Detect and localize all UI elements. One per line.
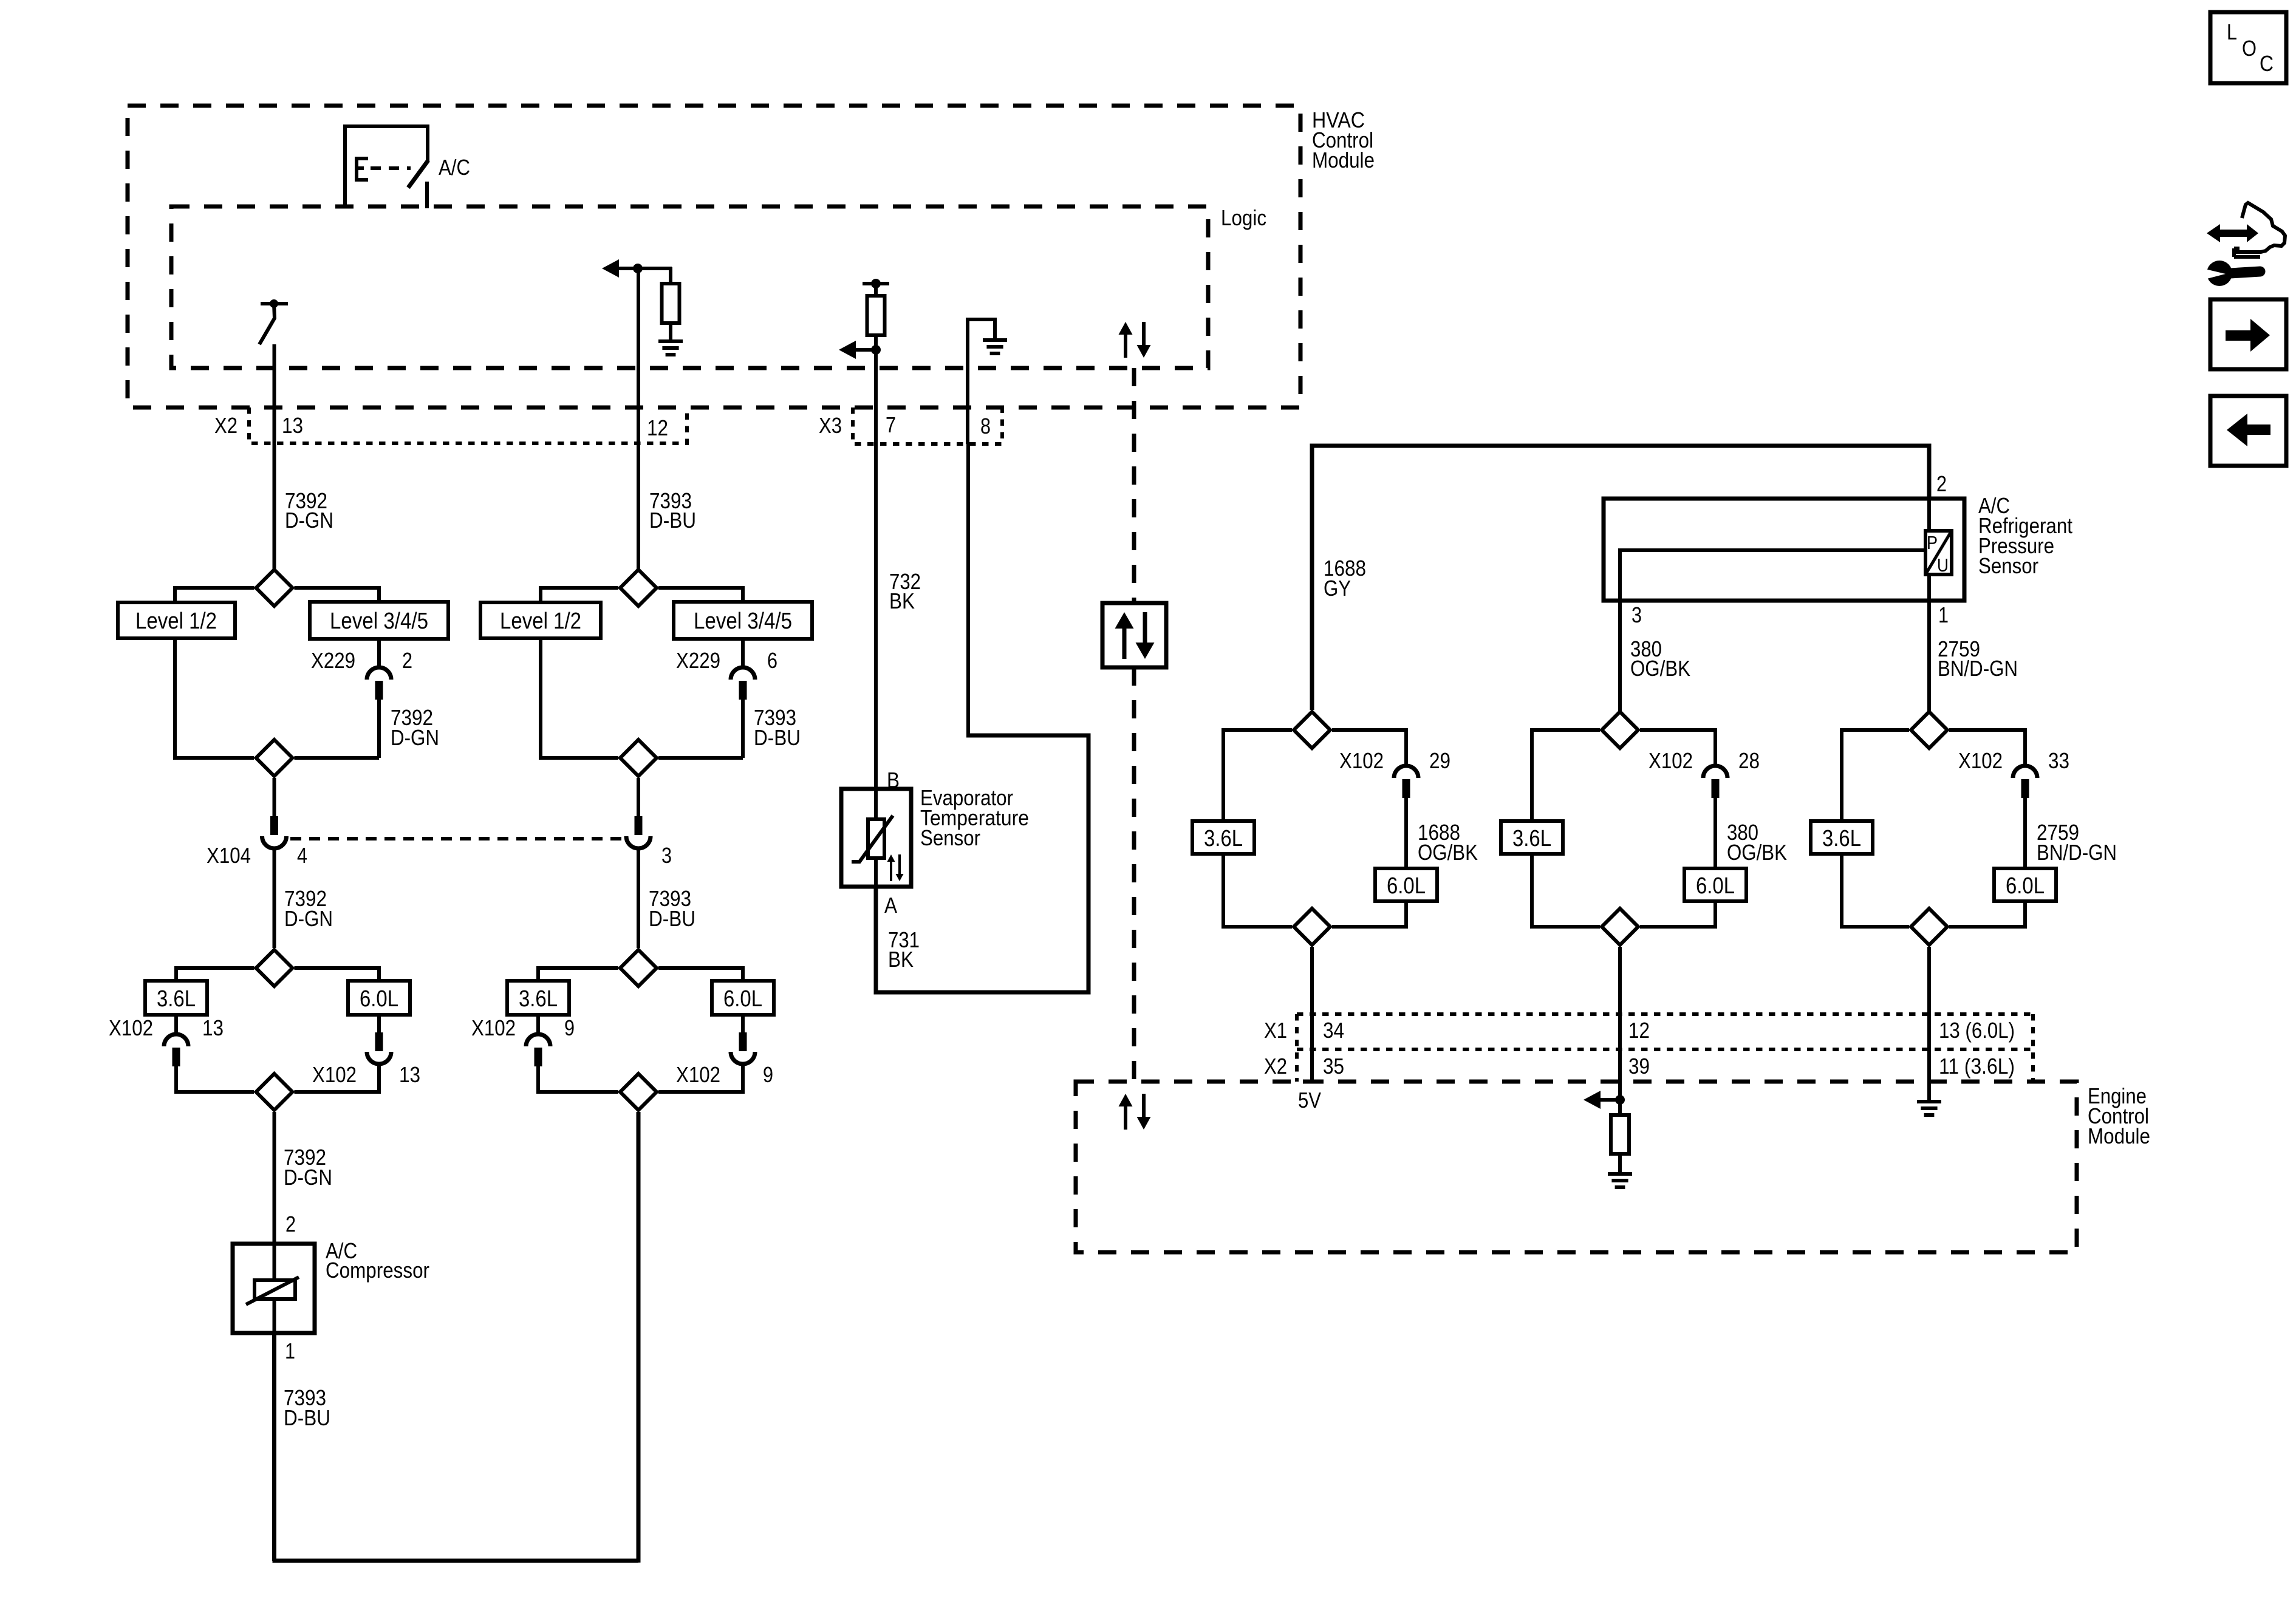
- splice diamond S101: [256, 570, 293, 606]
- connector X2 dotted box: [249, 407, 687, 443]
- svg-text:X104: X104: [207, 843, 251, 868]
- svg-text:BN/D-GN: BN/D-GN: [2037, 840, 2117, 865]
- wire pin 8 down: [966, 444, 970, 737]
- wire 6.0L to X102-9R: [741, 1015, 745, 1034]
- wire splice 4 to compressor: [273, 1112, 276, 1244]
- pull-down resistor lead: [669, 267, 672, 284]
- svg-text:6: 6: [767, 648, 777, 673]
- branch 2 bottom splice diamond: [1602, 909, 1638, 945]
- svg-text:6.0L: 6.0L: [2006, 873, 2045, 899]
- svg-text:2: 2: [402, 648, 412, 673]
- svg-text:Module: Module: [1312, 148, 1375, 172]
- wire splice 3 to 6.0L (1): [295, 968, 380, 981]
- svg-text:7: 7: [886, 412, 896, 437]
- branch 2 wire 3.6L to bottom splice: [1532, 854, 1600, 927]
- wire Level 3/4/5 to X229 pin 2: [377, 639, 381, 667]
- connector X3 dotted box: [853, 407, 1002, 444]
- wire X102-13L to splice 4: [176, 1066, 254, 1092]
- Level 3/4/5 box (1): [310, 602, 448, 639]
- branch 1 wire to 3.6L: [1223, 730, 1292, 821]
- branch 3 wire to ECM: [1927, 947, 1931, 1082]
- 5V terminal bar: [1303, 1080, 1322, 1084]
- svg-text:3.6L: 3.6L: [519, 986, 558, 1012]
- svg-text:D-BU: D-BU: [284, 1405, 330, 1430]
- branch 3 bottom splice diamond: [1911, 909, 1947, 945]
- svg-text:X1: X1: [1264, 1018, 1287, 1043]
- resistor to ground lead: [669, 323, 672, 339]
- branch 3 X102 male pin: [2021, 779, 2029, 798]
- wire splice to Level 1/2 (2): [541, 588, 618, 602]
- svg-text:2: 2: [1936, 471, 1947, 496]
- wire splice to 6.0L (2): [658, 968, 743, 981]
- svg-text:9: 9: [763, 1062, 773, 1087]
- branch 1 top splice diamond: [1294, 712, 1330, 748]
- serial data dashed line lower: [1132, 667, 1136, 1082]
- svg-text:3.6L: 3.6L: [157, 986, 196, 1012]
- pin 12 output arrow: [602, 259, 619, 278]
- wire 7393 from logic pin 12: [637, 268, 640, 569]
- A/C Refrigerant Pressure Sensor box: [1604, 499, 1964, 601]
- wire splice to X104 pin 3: [637, 778, 640, 817]
- logic switch junction dot: [270, 299, 278, 308]
- compressor feed wire inside: [273, 1244, 276, 1280]
- branch 1 X102 male pin: [1403, 779, 1410, 798]
- ECM rows dotted right edge: [2031, 1014, 2035, 1082]
- pressure transducer P/U symbol: [1925, 531, 1952, 574]
- svg-text:5V: 5V: [1298, 1088, 1321, 1113]
- A/C switch blade: [408, 160, 428, 188]
- svg-text:Sensor: Sensor: [1978, 553, 2038, 578]
- ECM pull-down resistor R3: [1611, 1115, 1629, 1154]
- pin 7 supply dot: [871, 279, 881, 288]
- wire splice 2-4 down to return: [637, 1112, 641, 1563]
- sensor data arrows: [887, 854, 895, 862]
- ECM pin 39 signal arrow: [1584, 1091, 1601, 1109]
- wire X229-2 down to splice 2: [377, 700, 381, 758]
- ECM resistor ground lead: [1618, 1154, 1622, 1172]
- svg-text:3: 3: [661, 843, 672, 868]
- branch 3 wire 3.6L to bottom splice: [1842, 854, 1909, 927]
- Evaporator Temperature Sensor box: [841, 789, 911, 887]
- pull-up resistor R2: [867, 296, 885, 335]
- wire X229-6 down to splice 2-2: [741, 700, 745, 758]
- sensor pin 1 wire inside: [1927, 574, 1931, 601]
- wire 7392 from switch to splice: [273, 344, 276, 569]
- connector X102 pin 9 L male pin: [535, 1048, 542, 1066]
- branch 3 3.6L box: [1811, 821, 1873, 854]
- svg-text:8: 8: [980, 414, 991, 438]
- connector X104 pin 4 male pin: [270, 816, 278, 835]
- branch 3 6.0L box: [1994, 868, 2056, 901]
- branch 1 wire to ECM: [1310, 947, 1314, 1082]
- branch 2 6.0L box: [1684, 868, 1746, 901]
- wire 732 BK pin7 to sensor B: [874, 350, 878, 789]
- svg-text:X102: X102: [312, 1062, 357, 1087]
- 3.6L box (2): [507, 981, 569, 1015]
- svg-text:X2: X2: [1264, 1054, 1287, 1079]
- svg-text:13: 13: [399, 1062, 420, 1087]
- sensor internal wire upper: [874, 789, 878, 819]
- svg-text:13 (6.0L): 13 (6.0L): [1939, 1018, 2015, 1043]
- wire right into splice 2: [295, 756, 380, 760]
- svg-text:OG/BK: OG/BK: [1630, 656, 1690, 681]
- svg-text:D-GN: D-GN: [284, 906, 333, 931]
- splice diamond S108: [620, 1074, 657, 1110]
- Level 3/4/5 box (2): [674, 602, 812, 639]
- svg-text:Level 1/2: Level 1/2: [500, 609, 581, 634]
- svg-text:BK: BK: [888, 947, 914, 972]
- logic serial data arrows: [1119, 322, 1133, 335]
- svg-text:D-BU: D-BU: [754, 725, 801, 750]
- svg-text:P: P: [1927, 532, 1938, 553]
- logic ground G1: [658, 339, 683, 343]
- svg-text:28: 28: [1738, 748, 1760, 773]
- serial data box arrows: [1115, 612, 1134, 629]
- svg-text:C: C: [2260, 51, 2274, 76]
- splice diamond S107: [620, 950, 657, 986]
- branch 2 wire to 6.0L: [1713, 798, 1717, 868]
- wire splice 3 to 3.6L (1): [176, 968, 255, 981]
- wire 731 BK sensor A loop: [876, 735, 1088, 992]
- ECM ground G3: [1608, 1172, 1632, 1176]
- svg-text:4: 4: [297, 843, 307, 868]
- svg-text:9: 9: [564, 1015, 575, 1040]
- pin 12 junction dot: [633, 264, 643, 273]
- svg-text:6.0L: 6.0L: [1696, 873, 1735, 899]
- splice diamond S102: [256, 740, 293, 776]
- branch 2 X102 male pin: [1712, 779, 1720, 798]
- svg-text:L: L: [2227, 19, 2237, 44]
- compressor coil lower wire: [273, 1299, 276, 1333]
- ECM pull-down resistor lead: [1618, 1100, 1622, 1115]
- svg-text:X102: X102: [1649, 748, 1693, 773]
- svg-text:O: O: [2242, 36, 2257, 61]
- connector X102 pin 13 L dome: [164, 1034, 188, 1046]
- svg-text:29: 29: [1429, 748, 1450, 773]
- branch 1 wire to 6.0L: [1404, 798, 1408, 868]
- connector X229 pin 2 male pin: [375, 681, 383, 700]
- data link car icon outline: [2234, 203, 2285, 252]
- Logic dashed box: [171, 206, 1208, 368]
- wire splice to Level 3/4/5 (2): [658, 588, 743, 602]
- svg-text:X229: X229: [676, 648, 720, 673]
- ECM pin 11 ground lead: [1927, 1082, 1931, 1100]
- svg-text:11 (3.6L): 11 (3.6L): [1939, 1054, 2015, 1079]
- svg-text:Level 3/4/5: Level 3/4/5: [330, 609, 428, 634]
- A/C switch S1 box outline: [345, 126, 428, 208]
- pin 7 supply bar: [863, 282, 889, 285]
- connector X102 pin 13 R male pin: [375, 1032, 383, 1051]
- serial data box symbol: [1102, 603, 1166, 667]
- svg-text:X102: X102: [1339, 748, 1384, 773]
- splice diamond S106: [620, 740, 657, 776]
- wire X104-4 to splice 3: [273, 848, 276, 948]
- connector X229 pin 6 male pin: [739, 681, 747, 700]
- svg-text:2: 2: [285, 1212, 296, 1236]
- branch 1 6.0L box: [1375, 868, 1437, 901]
- svg-text:13: 13: [282, 413, 303, 438]
- svg-text:3: 3: [1631, 602, 1642, 627]
- ECM X1 row dotted top: [1297, 1012, 2033, 1016]
- A/C switch fixed contact: [357, 159, 368, 180]
- back arrow box: [2210, 396, 2286, 466]
- svg-text:3.6L: 3.6L: [1204, 826, 1243, 851]
- branch 2 wire to X102 connector: [1640, 730, 1715, 765]
- svg-text:X102: X102: [676, 1062, 720, 1087]
- svg-text:D-GN: D-GN: [391, 725, 439, 750]
- wire Level 3/4/5 to X229 pin 6: [741, 639, 745, 667]
- logic switch contact bar: [261, 302, 288, 305]
- svg-text:X229: X229: [311, 648, 355, 673]
- 6.0L box (1): [348, 981, 410, 1015]
- svg-text:1: 1: [285, 1338, 295, 1363]
- Level 1/2 box (1): [118, 602, 235, 638]
- wire X102-9R to splice 2-4: [658, 1064, 743, 1092]
- sensor pin 2 wire inside: [1927, 499, 1931, 531]
- connector X102 pin 13 L male pin: [173, 1048, 180, 1066]
- branch 1 wire 6.0L to bottom splice: [1332, 901, 1406, 927]
- branch 2 top splice diamond: [1602, 712, 1638, 748]
- branch 2 wire 6.0L to bottom splice: [1640, 901, 1715, 927]
- wire 3.6L to X102-13L: [174, 1015, 178, 1032]
- ECM serial data arrows: [1119, 1094, 1133, 1106]
- wire bottom return horizontal: [273, 1559, 639, 1563]
- pin 8 ground riser: [968, 319, 995, 444]
- wire X102-13R to splice 4: [295, 1064, 380, 1092]
- logic switch blade: [259, 304, 275, 344]
- connector X104 pin 3 bowl: [626, 836, 651, 848]
- svg-text:U: U: [1937, 554, 1949, 576]
- A/C switch lower terminal: [425, 182, 429, 208]
- sensor internal wire lower: [874, 858, 878, 887]
- wire splice to 3.6L (2): [538, 968, 618, 981]
- wire pin 39 into ECM: [1618, 1082, 1622, 1100]
- logic ground G2: [983, 338, 1007, 342]
- svg-text:1: 1: [1938, 602, 1949, 627]
- Level 1/2 box (2): [480, 602, 601, 638]
- connector X229 pin 2 dome: [367, 667, 391, 680]
- pin 7 signal arrow: [839, 341, 856, 359]
- data link double arrow: [2207, 224, 2258, 242]
- serial data dashed line upper: [1132, 368, 1136, 603]
- connector X102 pin 9 R bowl: [731, 1052, 755, 1064]
- branch 1 wire 3.6L to bottom splice: [1223, 854, 1292, 927]
- branch 2 wire from sensor pin 3: [1618, 599, 1622, 712]
- splice diamond S105: [620, 570, 657, 606]
- svg-text:6.0L: 6.0L: [1387, 873, 1426, 899]
- branch 3 top splice diamond: [1911, 712, 1947, 748]
- wrench icon: [2207, 261, 2232, 286]
- wire splice 2 to X104 pin 4: [273, 778, 276, 817]
- wire right into splice 2-2: [658, 756, 743, 760]
- svg-text:D-BU: D-BU: [649, 906, 695, 931]
- branch 3 X102 dome: [2013, 766, 2037, 778]
- svg-text:D-GN: D-GN: [285, 508, 333, 533]
- svg-text:Logic: Logic: [1221, 205, 1266, 230]
- branch 3 wire to X102 connector: [1949, 730, 2025, 765]
- thermistor symbol: [868, 819, 884, 858]
- ECM rows dotted left edge: [1295, 1014, 1299, 1082]
- connector X104 pin 4 bowl: [262, 836, 287, 848]
- branch 1 bottom splice diamond: [1294, 909, 1330, 945]
- svg-text:3.6L: 3.6L: [1512, 826, 1551, 851]
- A/C Compressor box: [233, 1244, 315, 1333]
- 6.0L box (2): [712, 981, 774, 1015]
- svg-text:GY: GY: [1324, 576, 1351, 601]
- branch 2 wire to 3.6L: [1532, 730, 1600, 821]
- connector X102 pin 9 L dome: [526, 1034, 550, 1046]
- Engine Control Module dashed box: [1076, 1082, 2077, 1252]
- LOC legend box: [2210, 12, 2286, 83]
- wire Level 1/2 down to splice 2-2: [541, 638, 618, 758]
- svg-text:13: 13: [202, 1015, 224, 1040]
- svg-text:X102: X102: [109, 1015, 153, 1040]
- 3.6L box (1): [145, 981, 207, 1015]
- branch 1 3.6L box: [1192, 821, 1254, 854]
- splice diamond S104: [256, 1074, 293, 1110]
- svg-text:BN/D-GN: BN/D-GN: [1938, 656, 2018, 681]
- wire splice to Level 3/4/5: [295, 588, 380, 602]
- forward arrow box: [2210, 299, 2286, 369]
- branch 1 wire to X102 connector: [1332, 730, 1406, 765]
- svg-text:BK: BK: [889, 588, 915, 613]
- svg-text:Compressor: Compressor: [326, 1258, 429, 1283]
- svg-text:X3: X3: [819, 413, 842, 438]
- compressor coil symbol: [255, 1280, 295, 1299]
- ECM ground G4: [1917, 1100, 1941, 1103]
- svg-text:12: 12: [647, 415, 668, 440]
- pull-down resistor R1: [662, 284, 680, 323]
- ECM pin 39 junction dot: [1615, 1095, 1625, 1105]
- connector X102 pin 13 R bowl: [367, 1052, 391, 1064]
- svg-text:OG/BK: OG/BK: [1727, 840, 1787, 865]
- branch 3 wire from sensor pin 1: [1927, 599, 1931, 712]
- svg-text:35: 35: [1323, 1054, 1344, 1079]
- svg-text:Module: Module: [2088, 1123, 2150, 1148]
- connector X104 pin 3 male pin: [635, 816, 643, 835]
- splice diamond S103: [256, 950, 293, 986]
- svg-text:33: 33: [2048, 748, 2069, 773]
- A/C switch linkage dashed: [371, 166, 411, 170]
- branch 2 X102 dome: [1703, 766, 1727, 778]
- svg-text:6.0L: 6.0L: [723, 986, 762, 1012]
- svg-text:A: A: [884, 893, 897, 918]
- svg-text:6.0L: 6.0L: [360, 986, 398, 1012]
- pull-up resistor lower lead: [874, 335, 878, 350]
- branch 1 X102 dome: [1394, 766, 1418, 778]
- svg-text:34: 34: [1323, 1018, 1344, 1043]
- svg-text:D-GN: D-GN: [284, 1165, 332, 1190]
- connector X229 pin 6 dome: [731, 667, 755, 680]
- wire Level 1/2 down to splice 2: [175, 638, 254, 758]
- pull-up resistor lead: [874, 284, 878, 296]
- wire X102-9L to splice 2-4: [538, 1066, 618, 1092]
- sensor pin 3 internal wire: [1620, 550, 1925, 601]
- svg-text:Sensor: Sensor: [920, 825, 980, 850]
- svg-text:X102: X102: [1958, 748, 2003, 773]
- svg-text:X2: X2: [214, 413, 237, 438]
- svg-text:39: 39: [1628, 1054, 1650, 1079]
- wire splice to Level 1/2: [175, 588, 255, 602]
- wire 5V reference top run: [1312, 446, 1929, 710]
- svg-text:12: 12: [1628, 1018, 1650, 1043]
- wire X104-3 to splice 2-3: [637, 848, 640, 948]
- wire 3.6L to X102-9L: [536, 1015, 540, 1032]
- svg-text:Level 3/4/5: Level 3/4/5: [694, 609, 792, 634]
- svg-text:A/C: A/C: [439, 155, 470, 180]
- wire compressor pin 1 down: [272, 1333, 276, 1561]
- svg-text:D-BU: D-BU: [649, 508, 696, 533]
- connector X102 pin 9 R male pin: [739, 1032, 747, 1051]
- HVAC Control Module dashed box: [128, 106, 1300, 407]
- wire 6.0L to X102-13R: [377, 1015, 381, 1034]
- svg-text:X102: X102: [471, 1015, 516, 1040]
- branch 3 wire to 3.6L: [1842, 730, 1909, 821]
- ECM X1/X2 row dotted divider: [1297, 1048, 2033, 1051]
- svg-text:Level 1/2: Level 1/2: [135, 609, 217, 634]
- svg-text:OG/BK: OG/BK: [1418, 840, 1478, 865]
- branch 2 3.6L box: [1501, 821, 1563, 854]
- branch 2 wire to ECM: [1618, 947, 1622, 1082]
- branch 3 wire to 6.0L: [2023, 798, 2027, 868]
- svg-text:3.6L: 3.6L: [1822, 826, 1861, 851]
- pin 7 junction dot: [871, 345, 881, 355]
- branch 3 wire 6.0L to bottom splice: [1949, 901, 2025, 927]
- connector X104 link dashed: [290, 837, 624, 840]
